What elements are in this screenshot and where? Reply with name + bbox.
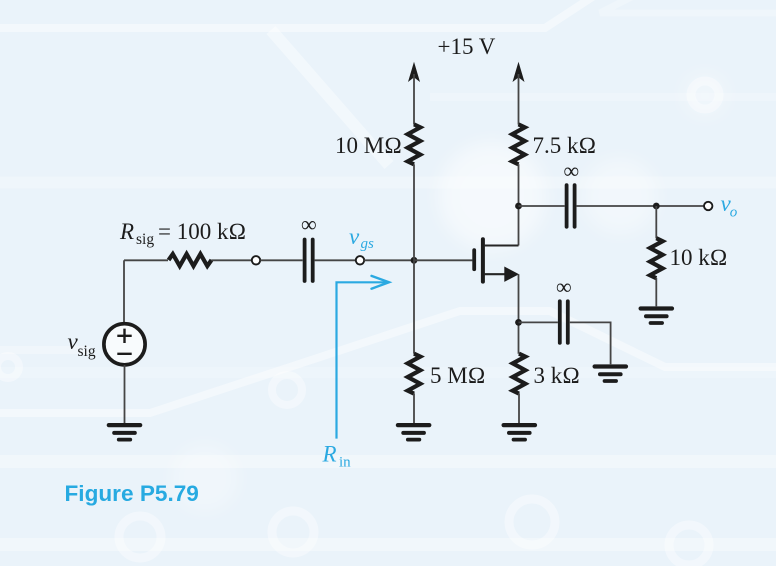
svg-text:gs: gs <box>361 236 375 252</box>
svg-text:∞: ∞ <box>301 212 317 237</box>
svg-text:3 kΩ: 3 kΩ <box>534 363 580 388</box>
resistor 10 kOhm <box>650 238 663 278</box>
svg-text:∞: ∞ <box>564 158 580 183</box>
wire left rail middle <box>413 164 415 354</box>
svg-text:sig: sig <box>78 343 96 360</box>
label v_sig <box>68 329 96 360</box>
wire right rail to drain <box>518 164 520 245</box>
wire source down <box>518 274 520 354</box>
ground at 3 kOhm <box>504 425 535 440</box>
label 3 kOhm <box>534 363 580 388</box>
wire left rail top <box>413 74 415 125</box>
svg-text:Figure P5.79: Figure P5.79 <box>65 481 199 506</box>
wire 10k to ground <box>655 278 657 306</box>
junction dot drain node <box>515 203 522 210</box>
wire junction to gate <box>414 259 472 261</box>
node vgs open terminal <box>356 256 364 264</box>
svg-text:∞: ∞ <box>556 274 572 299</box>
junction dot 10k node <box>653 203 660 210</box>
svg-text:R: R <box>322 441 337 466</box>
label 10 MOhm <box>335 133 402 158</box>
wire right rail top <box>518 74 520 125</box>
label R_in <box>322 441 352 470</box>
wire node to C1 <box>260 259 302 261</box>
ground at 10 kOhm <box>641 309 672 324</box>
source v_sig circle <box>104 324 145 365</box>
label infinity C3 <box>556 274 572 299</box>
svg-text:R: R <box>119 219 134 244</box>
wire input horizontal from source corner to R_sig <box>124 259 168 261</box>
Rin arrow marker <box>337 282 387 438</box>
label 5 MOhm <box>430 363 485 388</box>
ground at 5 MOhm <box>398 425 429 440</box>
node open terminal after R_sig <box>252 256 260 264</box>
node vo open terminal <box>704 202 712 210</box>
resistor 10 MOhm <box>408 124 421 164</box>
junction dot gate node <box>411 257 418 264</box>
resistor 5 MOhm <box>408 354 421 394</box>
transistor Q1 MOSFET <box>474 239 519 282</box>
label +15 V <box>438 34 496 59</box>
label 7.5 kOhm <box>533 133 597 158</box>
power arrow right rail <box>513 62 525 82</box>
resistor 3 kOhm <box>513 354 526 394</box>
label v_o <box>721 191 738 220</box>
svg-text:sig: sig <box>136 231 154 248</box>
ground at bypass <box>595 367 626 382</box>
junction dot source node <box>515 319 522 326</box>
capacitor C3 (infinity) bypass <box>560 301 568 343</box>
label infinity C1 <box>301 212 317 237</box>
power arrow left rail <box>408 62 420 82</box>
wire source to ground <box>124 365 126 423</box>
wire 3k to ground <box>518 393 520 423</box>
svg-text:5 MΩ: 5 MΩ <box>430 363 485 388</box>
wire vgs to gate junction <box>364 259 414 261</box>
label 10 kOhm <box>670 245 728 270</box>
wire input vertical down to source <box>123 260 125 322</box>
wire 5M to ground <box>413 393 415 423</box>
svg-text:in: in <box>339 454 351 470</box>
resistor R_sig horizontal <box>169 254 212 266</box>
svg-text:o: o <box>730 204 738 220</box>
wire 10k top <box>655 206 657 238</box>
wire C2 to vo <box>577 205 704 207</box>
label infinity C2 <box>564 158 580 183</box>
svg-text:10 MΩ: 10 MΩ <box>335 133 402 158</box>
wire C3 to ground <box>570 322 611 364</box>
svg-text:10 kΩ: 10 kΩ <box>670 245 728 270</box>
svg-text:= 100 kΩ: = 100 kΩ <box>158 219 246 244</box>
wire drain node to C2 <box>519 205 565 207</box>
svg-text:v: v <box>349 224 360 249</box>
figure caption <box>65 481 199 506</box>
capacitor C1 (infinity) coupling input <box>305 240 313 282</box>
svg-text:7.5 kΩ: 7.5 kΩ <box>533 133 597 158</box>
resistor 7.5 kOhm <box>512 124 525 164</box>
label R_sig = 100 kOhm <box>119 219 246 248</box>
svg-text:+15 V: +15 V <box>438 34 496 59</box>
label v_gs <box>349 224 374 252</box>
wire C1 to node vgs <box>315 259 356 261</box>
wire R_sig to node <box>211 259 251 261</box>
wire source node to C3 <box>519 321 558 323</box>
capacitor C2 (infinity) output coupling <box>567 185 575 227</box>
ground at v_sig <box>109 425 140 440</box>
